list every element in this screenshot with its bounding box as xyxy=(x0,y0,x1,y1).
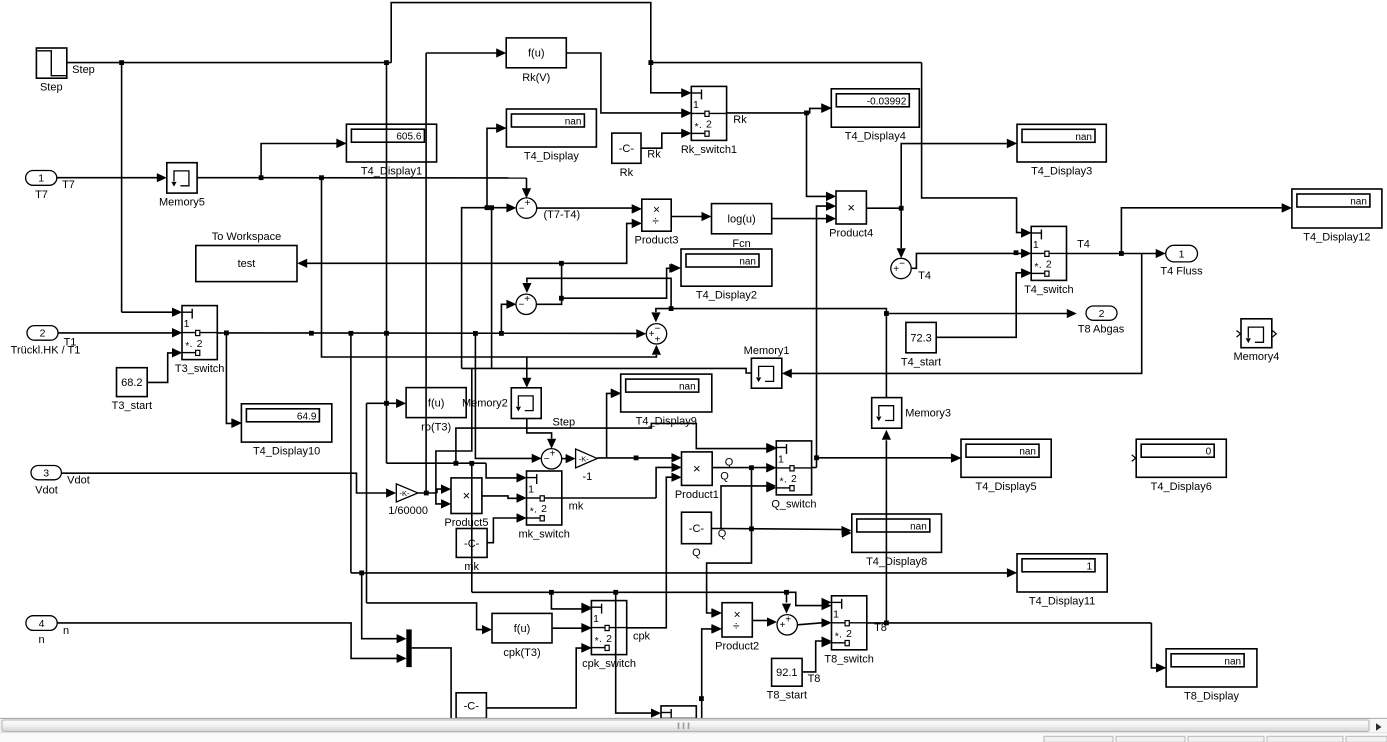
svg-text:Rk: Rk xyxy=(733,114,747,126)
svg-text:nan: nan xyxy=(1350,197,1367,208)
svg-text:T4: T4 xyxy=(918,270,931,282)
svg-text:cpk: cpk xyxy=(633,631,651,643)
svg-text:T1: T1 xyxy=(64,337,77,349)
svg-text:nan: nan xyxy=(679,382,696,393)
svg-text:+: + xyxy=(525,198,531,209)
svg-text:−: − xyxy=(899,258,905,269)
svg-text:+: + xyxy=(524,294,530,305)
svg-text:-C-: -C- xyxy=(619,143,635,155)
svg-text:cpk(T3): cpk(T3) xyxy=(503,647,540,659)
svg-text:nan: nan xyxy=(739,257,756,268)
svg-text:2: 2 xyxy=(197,338,203,350)
svg-text:T4_Display1: T4_Display1 xyxy=(361,166,422,178)
svg-text:T4_Display5: T4_Display5 xyxy=(976,481,1037,493)
svg-text:−: − xyxy=(518,300,524,311)
svg-text:68.2: 68.2 xyxy=(121,377,142,389)
svg-text:605.6: 605.6 xyxy=(396,132,421,143)
svg-text:T4_Display12: T4_Display12 xyxy=(1303,232,1370,244)
svg-text:Q: Q xyxy=(692,547,701,559)
svg-text:1: 1 xyxy=(693,99,699,111)
svg-text:ro(T3): ro(T3) xyxy=(421,422,451,434)
svg-text:2: 2 xyxy=(1046,259,1052,271)
svg-text:Product3: Product3 xyxy=(634,235,678,247)
svg-text:Rk_switch1: Rk_switch1 xyxy=(681,144,737,156)
svg-text:1: 1 xyxy=(38,173,44,185)
svg-text:mk: mk xyxy=(464,561,479,573)
svg-text:1: 1 xyxy=(184,318,190,330)
svg-text:Q_switch: Q_switch xyxy=(771,498,816,510)
svg-text:*·: *· xyxy=(530,506,538,518)
svg-text:×: × xyxy=(463,488,471,503)
svg-text:test: test xyxy=(238,258,256,270)
svg-text:+: + xyxy=(893,264,899,275)
svg-text:f(u): f(u) xyxy=(514,623,531,635)
svg-text:Q: Q xyxy=(725,457,734,469)
svg-text:cpk_switch: cpk_switch xyxy=(582,658,636,670)
svg-text:*·: *· xyxy=(835,630,843,642)
svg-text:f(u): f(u) xyxy=(428,397,445,409)
svg-text:0: 0 xyxy=(1206,447,1212,458)
svg-text:T3_switch: T3_switch xyxy=(175,363,225,375)
svg-text:T4_switch: T4_switch xyxy=(1024,284,1074,296)
svg-text:−: − xyxy=(655,324,661,335)
svg-text:f(u): f(u) xyxy=(528,48,545,60)
svg-text:+: + xyxy=(779,620,785,631)
svg-text:nan: nan xyxy=(565,117,582,128)
svg-text:1: 1 xyxy=(528,484,534,496)
svg-text:T8 Abgas: T8 Abgas xyxy=(1078,324,1125,336)
svg-text:To Workspace: To Workspace xyxy=(212,231,282,243)
svg-text:T4_Display4: T4_Display4 xyxy=(845,131,906,143)
svg-text:2: 2 xyxy=(606,633,612,645)
svg-text:72.3: 72.3 xyxy=(910,332,931,344)
svg-text:T3_start: T3_start xyxy=(112,400,152,412)
svg-text:T4_Display10: T4_Display10 xyxy=(253,446,320,458)
svg-text:Memory3: Memory3 xyxy=(905,407,951,419)
svg-text:÷: ÷ xyxy=(733,619,740,633)
svg-text:T4_Display9: T4_Display9 xyxy=(636,416,697,428)
svg-text:T4_Display3: T4_Display3 xyxy=(1031,166,1092,178)
svg-text:−: − xyxy=(544,454,550,465)
svg-text:Memory4: Memory4 xyxy=(1233,351,1279,363)
svg-text:2: 2 xyxy=(40,328,46,340)
svg-text:T4_Display2: T4_Display2 xyxy=(696,290,757,302)
svg-text:mk: mk xyxy=(569,501,584,513)
svg-text:(T7-T4): (T7-T4) xyxy=(544,209,581,221)
svg-text:T7: T7 xyxy=(62,179,75,191)
svg-text:+: + xyxy=(785,615,791,626)
svg-text:Q: Q xyxy=(720,471,729,483)
svg-text:2: 2 xyxy=(541,503,547,515)
svg-text:nan: nan xyxy=(1019,447,1036,458)
svg-text:Rk(V): Rk(V) xyxy=(522,72,550,84)
svg-text:T4_Display11: T4_Display11 xyxy=(1029,596,1095,608)
svg-text:×: × xyxy=(847,200,855,215)
svg-text:-C-: -C- xyxy=(464,538,480,550)
svg-text:1: 1 xyxy=(833,608,839,620)
svg-text:−: − xyxy=(519,204,525,215)
svg-text:1/60000: 1/60000 xyxy=(388,505,428,517)
svg-text:*·: *· xyxy=(1034,261,1042,273)
svg-text:nan: nan xyxy=(1224,656,1241,667)
svg-text:Rk: Rk xyxy=(620,167,634,179)
svg-text:n: n xyxy=(63,625,69,637)
svg-text:T4 Fluss: T4 Fluss xyxy=(1160,266,1203,278)
svg-text:Rk: Rk xyxy=(647,149,661,161)
svg-text:Vdot: Vdot xyxy=(35,485,58,497)
svg-text:*·: *· xyxy=(595,635,603,647)
svg-text:T4_Display: T4_Display xyxy=(524,151,580,163)
svg-text:Step: Step xyxy=(40,82,63,94)
svg-text:+: + xyxy=(655,335,661,346)
svg-text:1: 1 xyxy=(1033,239,1039,251)
svg-text:64.9: 64.9 xyxy=(297,411,317,422)
svg-text:T8_Display: T8_Display xyxy=(1184,691,1240,703)
svg-text:T8_start: T8_start xyxy=(767,690,807,702)
svg-text:nan: nan xyxy=(1075,132,1092,143)
svg-text:×: × xyxy=(693,461,701,476)
svg-text:4: 4 xyxy=(39,618,45,630)
svg-text:2: 2 xyxy=(846,628,852,640)
svg-text:-0.03992: -0.03992 xyxy=(867,96,907,107)
svg-text:Product4: Product4 xyxy=(829,228,873,240)
svg-text:Memory2: Memory2 xyxy=(462,398,508,410)
svg-text:2: 2 xyxy=(1099,308,1105,320)
svg-text:-K-: -K- xyxy=(400,489,411,498)
svg-text:T8: T8 xyxy=(874,622,887,634)
svg-text:1: 1 xyxy=(1179,248,1185,260)
svg-text:T8: T8 xyxy=(808,673,821,685)
svg-text:*·: *· xyxy=(780,476,788,488)
svg-text:*·: *· xyxy=(185,340,193,352)
svg-text:mk_switch: mk_switch xyxy=(518,529,569,541)
svg-text:Product2: Product2 xyxy=(715,641,759,653)
svg-text:92.1: 92.1 xyxy=(776,667,797,679)
svg-text:1: 1 xyxy=(593,613,599,625)
svg-text:T4: T4 xyxy=(1077,239,1090,251)
svg-text:n: n xyxy=(38,634,44,646)
svg-text:-1: -1 xyxy=(583,471,593,483)
svg-text:Fcn: Fcn xyxy=(732,238,750,250)
svg-text:T4_start: T4_start xyxy=(901,356,941,368)
svg-text:-K-: -K- xyxy=(579,454,590,463)
svg-text:Product1: Product1 xyxy=(675,489,719,501)
svg-text:-C-: -C- xyxy=(689,523,705,535)
svg-text:Product5: Product5 xyxy=(444,517,488,529)
svg-text:T4_Display8: T4_Display8 xyxy=(866,556,927,568)
svg-text:log(u): log(u) xyxy=(728,214,756,226)
svg-text:+: + xyxy=(550,449,556,460)
svg-text:Memory5: Memory5 xyxy=(159,197,205,209)
svg-text:*·: *· xyxy=(695,121,703,133)
svg-text:T4_Display6: T4_Display6 xyxy=(1151,481,1212,493)
svg-text:Step: Step xyxy=(72,64,95,76)
svg-text:1: 1 xyxy=(778,454,784,466)
svg-text:Vdot: Vdot xyxy=(67,475,90,487)
svg-text:-C-: -C- xyxy=(464,700,480,712)
svg-text:3: 3 xyxy=(43,467,49,479)
svg-text:2: 2 xyxy=(791,473,797,485)
svg-text:T7: T7 xyxy=(35,189,48,201)
svg-text:Memory1: Memory1 xyxy=(744,345,790,357)
svg-text:Step: Step xyxy=(553,417,576,429)
svg-text:2: 2 xyxy=(706,119,712,131)
svg-text:nan: nan xyxy=(910,522,927,533)
svg-text:1: 1 xyxy=(1086,561,1092,572)
svg-text:÷: ÷ xyxy=(652,214,659,228)
svg-text:Q: Q xyxy=(718,528,727,540)
svg-text:T8_switch: T8_switch xyxy=(824,653,874,665)
